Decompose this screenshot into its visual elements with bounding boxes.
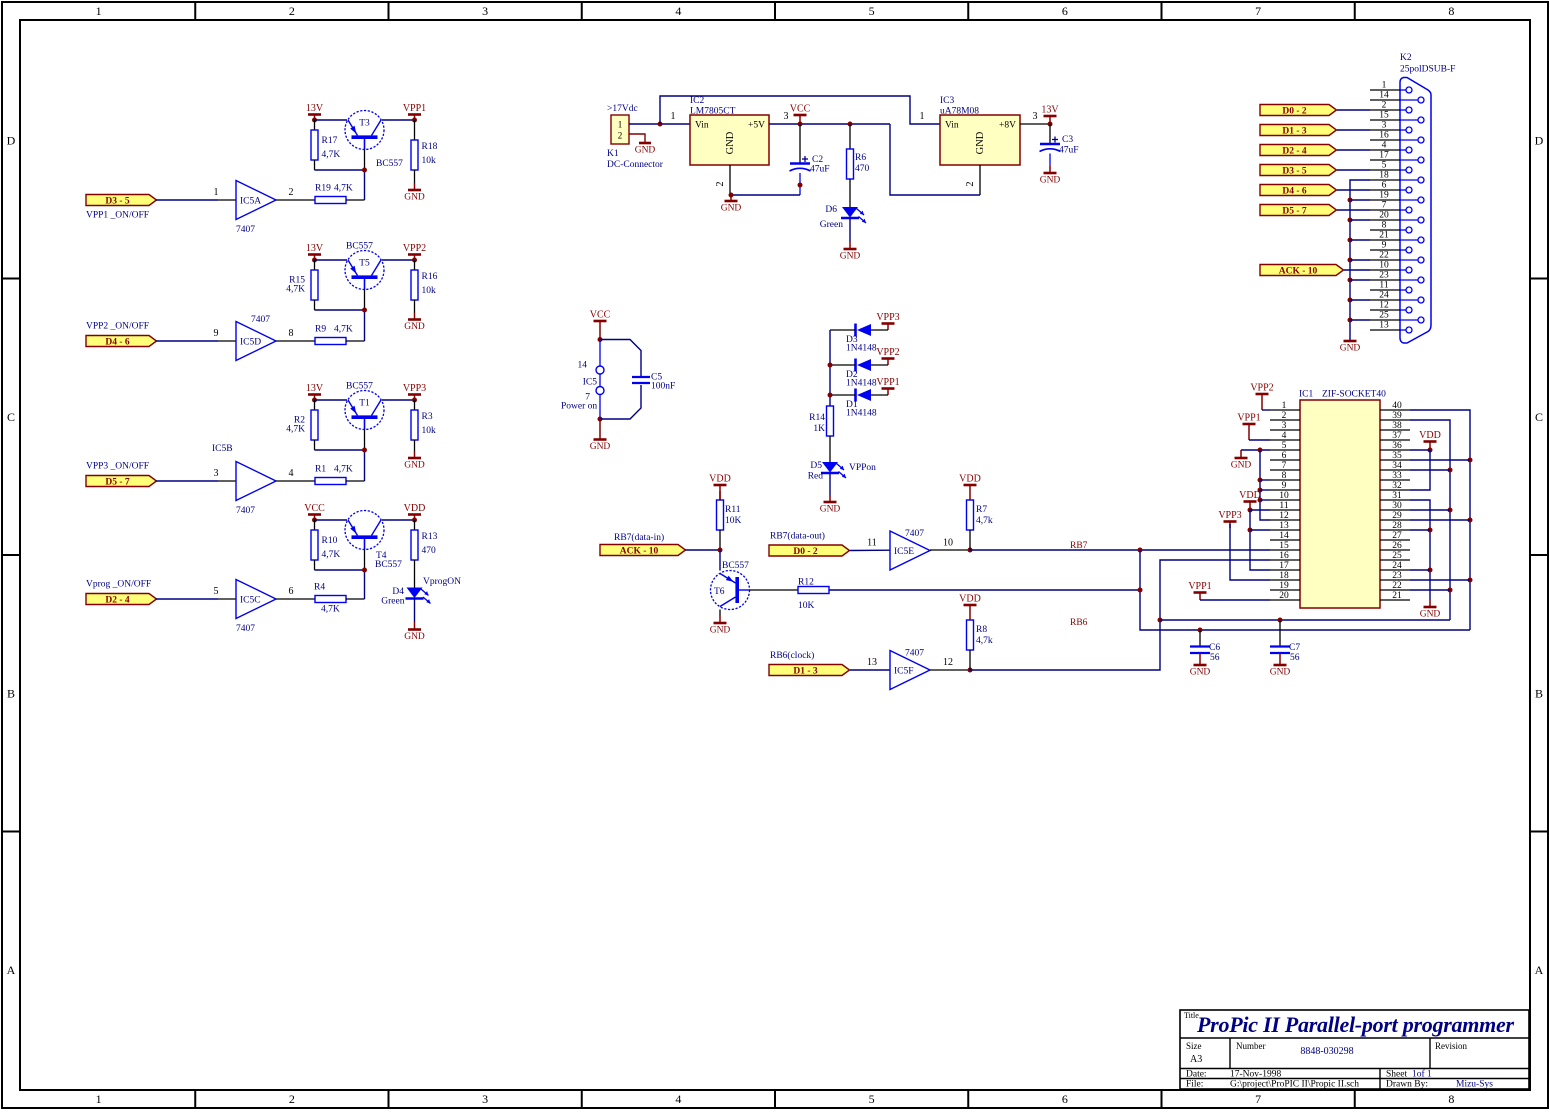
svg-text:20: 20	[1279, 591, 1289, 601]
port D1 - 3 (RB6 clock)	[769, 650, 850, 676]
svg-text:3: 3	[482, 4, 488, 18]
svg-text:A3: A3	[1190, 1054, 1202, 1065]
svg-text:13: 13	[1379, 321, 1389, 331]
ground below R18	[404, 170, 425, 203]
svg-text:24: 24	[1392, 561, 1402, 571]
svg-text:1: 1	[96, 1092, 102, 1106]
port D1 - 3 to K2	[1260, 125, 1337, 137]
svg-text:+8V: +8V	[999, 121, 1016, 131]
svg-text:R14: R14	[809, 413, 825, 423]
svg-text:R18: R18	[422, 142, 438, 152]
wire R17 to base junction	[315, 160, 368, 173]
svg-text:4: 4	[675, 4, 681, 18]
ground below R3	[404, 440, 425, 471]
wire RB7 vertical to bottom rail	[1138, 550, 1471, 630]
IC IC1 ZIF-SOCKET40	[1299, 390, 1386, 609]
wire R10 to base junction	[315, 560, 368, 573]
svg-text:GND: GND	[1270, 668, 1291, 678]
svg-text:ACK - 10: ACK - 10	[620, 546, 659, 556]
svg-text:11: 11	[867, 538, 877, 549]
resistor R12 10K	[798, 578, 829, 612]
wire buffer output pin 8	[276, 328, 315, 341]
svg-text:7: 7	[1282, 461, 1287, 471]
wire IC1 pin 39 to RB6 rail	[1410, 420, 1453, 620]
wire ACK-10 to K2 pin 10	[1344, 269, 1370, 271]
svg-text:B: B	[1535, 686, 1543, 700]
svg-text:D0 - 2: D0 - 2	[793, 547, 818, 557]
svg-text:1K: 1K	[813, 424, 825, 434]
svg-text:C6: C6	[1209, 643, 1220, 653]
svg-text:Vin: Vin	[695, 121, 709, 131]
transistor T6 BC557	[711, 561, 750, 610]
svg-text:2: 2	[289, 1092, 295, 1106]
capacitor C3 47uF	[1040, 124, 1079, 166]
wire port to buffer IC5D	[156, 328, 236, 341]
svg-text:R6: R6	[855, 153, 866, 163]
svg-text:8848-030298: 8848-030298	[1300, 1046, 1353, 1057]
svg-text:10K: 10K	[725, 516, 742, 526]
svg-text:VPP1: VPP1	[1188, 581, 1211, 592]
svg-text:D6: D6	[825, 205, 837, 215]
svg-text:BC557: BC557	[375, 560, 402, 570]
wire R9 to base of T5	[346, 280, 365, 342]
svg-text:R13: R13	[422, 532, 438, 542]
svg-text:D5 - 7: D5 - 7	[1282, 206, 1307, 216]
wire IC1 pins 31,28,24 ground bus	[1410, 500, 1433, 600]
ground below T6	[710, 610, 731, 636]
svg-text:25: 25	[1392, 551, 1402, 561]
ground below IC5 pin 7	[599, 419, 601, 440]
power VPP3 (stage 3)	[403, 383, 426, 403]
wire K1 pin 1 to IC2 Vin	[629, 111, 690, 127]
wire IC1 pins 8,9,10,12 ground bus	[1258, 450, 1271, 520]
diode D2 1N4148	[830, 359, 888, 389]
ground below R16	[404, 300, 425, 332]
svg-text:VPP1 _ON/OFF: VPP1 _ON/OFF	[86, 211, 149, 221]
wire port to buffer IC5B	[156, 468, 236, 481]
svg-text:VPP2: VPP2	[1250, 383, 1273, 394]
svg-text:470: 470	[855, 164, 870, 174]
resistor R9 4,7K	[315, 325, 353, 345]
svg-text:5: 5	[214, 586, 219, 597]
svg-text:17-Nov-1998: 17-Nov-1998	[1230, 1070, 1281, 1080]
svg-text:16: 16	[1379, 131, 1389, 141]
wire IC2 output +5V rail	[769, 111, 890, 124]
port D3 - 5 to K2	[1260, 165, 1337, 177]
wire R19 to base of T3	[346, 140, 365, 201]
svg-text:47uF: 47uF	[1059, 146, 1079, 156]
wire IC3 output 13V	[1020, 111, 1050, 124]
wire ACK-10 to T6 emitter junction	[686, 548, 723, 571]
ground below K2 rail	[1349, 340, 1351, 341]
svg-text:10k: 10k	[422, 286, 437, 296]
wire collector to VDD	[382, 519, 415, 521]
svg-text:GND: GND	[1231, 461, 1252, 471]
wire IC5E output pin 10	[930, 538, 973, 553]
svg-text:4,7k: 4,7k	[976, 636, 993, 646]
svg-text:Red: Red	[808, 472, 824, 482]
svg-text:RB7: RB7	[1070, 541, 1088, 551]
svg-text:7407: 7407	[905, 649, 924, 659]
svg-text:8: 8	[1448, 1092, 1454, 1106]
buffer IC5A 7407	[236, 181, 276, 236]
capacitor C5 100nF	[600, 340, 675, 420]
ground below D5	[820, 474, 841, 515]
svg-text:8: 8	[1282, 471, 1287, 481]
svg-text:IC5E: IC5E	[894, 547, 914, 557]
svg-text:VDD: VDD	[709, 474, 731, 485]
resistor R10 4,7K	[311, 520, 340, 560]
svg-text:15: 15	[1279, 541, 1289, 551]
resistor R7 4,7k	[967, 500, 993, 551]
ground below C3	[1049, 166, 1051, 173]
svg-text:GND: GND	[1190, 668, 1211, 678]
svg-text:T5: T5	[359, 259, 370, 269]
svg-text:IC5: IC5	[583, 378, 598, 388]
wire VCC to emitter	[315, 519, 348, 521]
power VPP1 to IC1 pin 20	[1188, 581, 1270, 600]
svg-text:GND: GND	[635, 146, 656, 156]
svg-text:BC557: BC557	[722, 561, 749, 571]
svg-text:56: 56	[1210, 653, 1220, 663]
svg-text:3: 3	[482, 1092, 488, 1106]
svg-text:Green: Green	[820, 220, 843, 230]
svg-text:VPP3: VPP3	[403, 383, 426, 394]
IC1 right pins 21-40	[1380, 401, 1410, 601]
svg-text:22: 22	[1392, 581, 1402, 591]
transistor T5 BC557	[345, 242, 384, 290]
svg-text:GND: GND	[721, 204, 742, 214]
svg-text:14: 14	[578, 361, 588, 371]
svg-text:25: 25	[1379, 311, 1389, 321]
svg-text:D: D	[1535, 133, 1544, 147]
svg-text:R7: R7	[976, 505, 987, 515]
svg-text:C7: C7	[1289, 643, 1300, 653]
resistor R14 1K	[809, 406, 833, 462]
svg-text:GND: GND	[404, 322, 425, 332]
wire port to buffer IC5A	[156, 187, 236, 200]
svg-text:56: 56	[1290, 653, 1300, 663]
buffer IC5B 7407	[212, 444, 276, 516]
svg-text:12: 12	[1279, 511, 1289, 521]
svg-text:A: A	[1535, 963, 1544, 977]
svg-text:VPP1: VPP1	[1237, 413, 1260, 424]
svg-text:R19: R19	[315, 184, 331, 194]
svg-text:GND: GND	[1420, 610, 1441, 620]
svg-text:16: 16	[1279, 551, 1289, 561]
svg-text:4,7K: 4,7K	[334, 184, 353, 194]
svg-text:32: 32	[1392, 481, 1402, 491]
svg-text:K1: K1	[607, 149, 619, 159]
svg-text:R4: R4	[314, 583, 325, 593]
transistor T4 BC557	[345, 511, 402, 571]
svg-text:GND: GND	[404, 461, 425, 471]
svg-text:A: A	[7, 963, 16, 977]
svg-text:T3: T3	[359, 119, 370, 129]
wire 13V to emitter	[315, 119, 348, 121]
svg-text:VPP1: VPP1	[403, 103, 426, 114]
svg-text:29: 29	[1392, 511, 1402, 521]
resistor R4 4,7K	[314, 583, 346, 615]
power VPP2 (stage 2)	[403, 243, 426, 263]
svg-text:23: 23	[1392, 571, 1402, 581]
resistor R16 10k	[411, 260, 438, 300]
svg-text:D0 - 2: D0 - 2	[1282, 106, 1307, 116]
svg-text:13V: 13V	[1041, 105, 1059, 116]
wire collector to VPP1	[382, 119, 415, 121]
svg-text:VCC: VCC	[304, 503, 325, 514]
ground at K1 pin 2	[629, 134, 655, 156]
svg-text:12: 12	[943, 657, 953, 668]
svg-text:23: 23	[1379, 271, 1389, 281]
svg-text:28: 28	[1392, 521, 1402, 531]
svg-text:D3 - 5: D3 - 5	[105, 196, 130, 206]
port D0 - 2 (RB7 data-out)	[769, 531, 850, 557]
power 13V (stage 1)	[306, 103, 324, 123]
svg-text:19: 19	[1379, 191, 1389, 201]
svg-text:11: 11	[1279, 501, 1288, 511]
svg-text:7407: 7407	[236, 506, 255, 516]
resistor R11 10K	[717, 491, 742, 550]
wire RB7 net to ZIF pin 15	[970, 541, 1270, 553]
port D4 - 6 to K2	[1260, 185, 1337, 197]
svg-text:1N4148: 1N4148	[846, 379, 877, 389]
capacitor C2 47uF	[790, 124, 830, 195]
svg-text:GND: GND	[710, 626, 731, 636]
svg-text:RB6: RB6	[1070, 618, 1088, 628]
svg-text:D5: D5	[810, 461, 822, 471]
svg-text:3: 3	[1033, 111, 1038, 122]
resistor R1 4,7K	[315, 465, 353, 485]
svg-text:R11: R11	[725, 505, 741, 515]
svg-text:BC557: BC557	[376, 159, 403, 169]
svg-text:R9: R9	[315, 325, 326, 335]
ground below IC1 right bus	[1429, 600, 1431, 607]
svg-text:6: 6	[1382, 181, 1387, 191]
wire T6 base through R12	[750, 589, 799, 591]
wire +5V rail to IC3 GND pin	[890, 124, 980, 195]
svg-text:2: 2	[1382, 101, 1387, 111]
resistor R19 4,7K	[315, 184, 353, 204]
svg-text:13V: 13V	[306, 383, 324, 394]
svg-text:Drawn By:: Drawn By:	[1386, 1080, 1428, 1090]
ground at IC2 pin 2	[730, 195, 732, 201]
svg-text:GND: GND	[725, 131, 736, 154]
port D2 - 4 (stage 4 input)	[86, 580, 157, 606]
svg-text:B: B	[7, 686, 15, 700]
svg-text:25polDSUB-F: 25polDSUB-F	[1400, 65, 1455, 75]
wire D3 - 5 to K2 pin	[1337, 169, 1370, 171]
power VCC at IC2 output	[790, 104, 811, 127]
svg-text:8: 8	[289, 328, 294, 339]
svg-text:2: 2	[289, 187, 294, 198]
resistor R2 4,7K	[286, 400, 318, 440]
wire collector to VPP3	[382, 399, 415, 401]
svg-text:7407: 7407	[236, 624, 255, 634]
svg-text:Revision: Revision	[1435, 1041, 1468, 1051]
svg-text:>17Vdc: >17Vdc	[607, 104, 638, 114]
svg-text:30: 30	[1392, 501, 1402, 511]
svg-text:R17: R17	[322, 136, 338, 146]
svg-text:4: 4	[1282, 431, 1287, 441]
svg-text:470: 470	[422, 546, 437, 556]
power 13V (stage 2)	[306, 243, 324, 263]
svg-text:D4 - 6: D4 - 6	[105, 337, 130, 347]
svg-text:40: 40	[1392, 401, 1402, 411]
wire D5 - 7 to K2 pin	[1337, 209, 1370, 211]
svg-text:VDD: VDD	[1239, 490, 1261, 501]
svg-text:D1 - 3: D1 - 3	[1282, 126, 1307, 136]
wire diode common rail	[828, 330, 833, 406]
svg-text:VPP1: VPP1	[876, 377, 899, 388]
svg-text:IC3: IC3	[940, 96, 955, 106]
svg-text:D1 - 3: D1 - 3	[793, 666, 818, 676]
svg-text:17: 17	[1379, 151, 1389, 161]
ground below C6	[1199, 653, 1201, 665]
power VDD (stage 4)	[404, 503, 426, 523]
svg-text:D5 - 7: D5 - 7	[105, 477, 130, 487]
svg-text:Date:: Date:	[1186, 1070, 1207, 1080]
svg-text:VPP3: VPP3	[1218, 510, 1241, 521]
diode D3 1N4148	[830, 324, 888, 354]
resistor R17 4,7K	[311, 120, 340, 160]
resistor R8 4,7k	[967, 620, 993, 670]
svg-text:4: 4	[1382, 141, 1387, 151]
regulator IC3 uA78M08	[940, 96, 1020, 195]
svg-text:4,7K: 4,7K	[286, 285, 305, 295]
svg-text:21: 21	[1379, 231, 1389, 241]
svg-text:ProPic II Parallel-port prog: ProPic II Parallel-port programmer	[1196, 1012, 1514, 1037]
svg-text:IC1: IC1	[1299, 390, 1314, 400]
port D5 - 7 (stage 3 input)	[86, 462, 157, 488]
svg-text:C3: C3	[1062, 135, 1073, 145]
svg-text:T1: T1	[359, 399, 370, 409]
power VPP3 to IC1 pin 18	[1218, 510, 1270, 580]
svg-text:1: 1	[96, 4, 102, 18]
wire R15 to base junction	[315, 300, 368, 313]
svg-text:C: C	[7, 410, 15, 424]
svg-text:4,7K: 4,7K	[334, 465, 353, 475]
svg-text:IC5B: IC5B	[212, 444, 233, 454]
svg-text:D2 - 4: D2 - 4	[105, 595, 130, 605]
svg-text:1: 1	[1282, 401, 1287, 411]
svg-text:Sheet: Sheet	[1386, 1070, 1407, 1080]
svg-text:6: 6	[289, 586, 294, 597]
svg-text:19: 19	[1279, 581, 1289, 591]
svg-text:GND: GND	[975, 131, 986, 154]
wire input bypass to IC3 Vin	[660, 96, 940, 124]
svg-text:10k: 10k	[422, 156, 437, 166]
connector K2 25polDSUB-F	[1400, 53, 1455, 343]
resistor R15 4,7K	[286, 260, 318, 300]
ground below C7	[1279, 653, 1281, 665]
svg-text:1: 1	[618, 120, 623, 130]
svg-text:7: 7	[1255, 1092, 1261, 1106]
svg-text:38: 38	[1392, 421, 1402, 431]
svg-text:VDD: VDD	[404, 503, 426, 514]
svg-text:K2: K2	[1400, 53, 1412, 63]
svg-text:VDD: VDD	[959, 474, 981, 485]
svg-text:G:\project\ProPIC II\Propic: G:\project\ProPIC II\Propic II.sch	[1230, 1080, 1359, 1090]
power 13V (stage 3)	[306, 383, 324, 403]
svg-text:14: 14	[1279, 531, 1289, 541]
transistor T3 BC557	[345, 111, 403, 170]
svg-text:35: 35	[1392, 451, 1402, 461]
wire R4 to base of T4	[346, 540, 365, 600]
svg-text:11: 11	[1379, 281, 1388, 291]
port D5 - 7 to K2	[1260, 205, 1337, 217]
svg-text:Number: Number	[1236, 1041, 1266, 1051]
svg-text:VPP2 _ON/OFF: VPP2 _ON/OFF	[86, 322, 149, 332]
svg-text:1: 1	[214, 187, 219, 198]
power VDD at IC1 pin 36	[1410, 430, 1441, 490]
led D6 Green	[820, 205, 866, 230]
svg-text:Green: Green	[381, 597, 404, 607]
svg-text:21: 21	[1392, 591, 1402, 601]
port ACK - 10 to K2	[1260, 265, 1344, 277]
svg-text:6: 6	[1062, 4, 1068, 18]
svg-text:2: 2	[715, 182, 726, 187]
svg-text:R12: R12	[798, 578, 814, 588]
ground below D4	[404, 599, 425, 643]
svg-text:8: 8	[1382, 221, 1387, 231]
resistor R6 470	[847, 122, 870, 208]
svg-text:IC5C: IC5C	[240, 596, 261, 606]
wire 13V to emitter	[315, 259, 348, 261]
svg-text:ACK - 10: ACK - 10	[1279, 266, 1318, 276]
buffer IC5D 7407	[236, 315, 276, 361]
power VPP1 (stage 1)	[403, 103, 426, 123]
svg-text:22: 22	[1379, 251, 1389, 261]
svg-text:D4 - 6: D4 - 6	[1282, 186, 1307, 196]
svg-text:VPPon: VPPon	[849, 463, 876, 473]
svg-text:1: 1	[671, 111, 676, 122]
svg-text:4,7K: 4,7K	[334, 325, 353, 335]
svg-text:BC557: BC557	[346, 242, 373, 252]
svg-text:37: 37	[1392, 431, 1402, 441]
wire D1-3 to IC5F	[850, 657, 890, 670]
wire IC5F output pin 12	[930, 657, 973, 673]
svg-text:T6: T6	[714, 587, 725, 597]
svg-text:1: 1	[920, 111, 925, 122]
buffer IC5C 7407	[236, 580, 276, 635]
wire IC2 pin 2 to ground net	[715, 165, 800, 198]
svg-text:5: 5	[869, 4, 875, 18]
wire IC1 pin 40 to RB7 rail	[1410, 410, 1473, 630]
svg-text:31: 31	[1392, 491, 1402, 501]
svg-text:GND: GND	[404, 193, 425, 203]
svg-text:VPP2: VPP2	[876, 347, 899, 358]
svg-text:GND: GND	[840, 252, 861, 262]
svg-text:D: D	[7, 133, 16, 147]
wire collector to VPP2	[382, 259, 415, 261]
svg-text:VPP3: VPP3	[876, 312, 899, 323]
svg-text:Power on: Power on	[561, 402, 597, 412]
svg-text:4,7K: 4,7K	[322, 550, 341, 560]
svg-text:4,7K: 4,7K	[321, 605, 340, 615]
buffer IC5E 7407	[890, 529, 930, 570]
svg-text:10: 10	[943, 538, 953, 549]
wire port to buffer IC5C	[156, 586, 236, 599]
svg-text:13: 13	[1279, 521, 1289, 531]
svg-text:IC5A: IC5A	[240, 197, 261, 207]
svg-text:C: C	[1535, 410, 1543, 424]
svg-text:10: 10	[1379, 261, 1389, 271]
wire K2 ground rail pins 18-25	[1348, 180, 1371, 340]
svg-text:47uF: 47uF	[810, 165, 830, 175]
svg-text:26: 26	[1392, 541, 1402, 551]
svg-text:Vprog _ON/OFF: Vprog _ON/OFF	[86, 580, 151, 590]
